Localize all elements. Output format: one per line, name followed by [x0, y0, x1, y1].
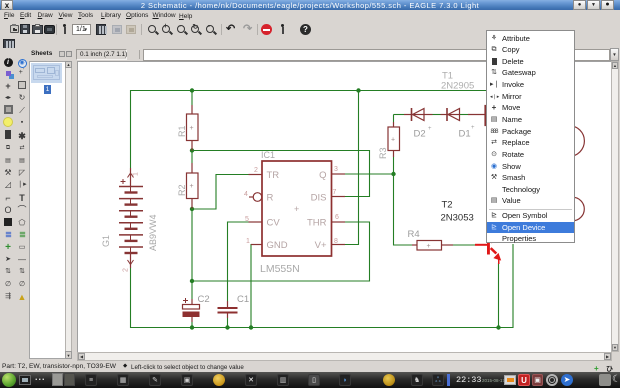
svg-text:C2: C2	[198, 294, 210, 305]
svg-text:8: 8	[334, 238, 338, 245]
svg-text:R1: R1	[177, 125, 187, 137]
svg-text:5: 5	[245, 216, 249, 223]
svg-text:1: 1	[133, 172, 140, 176]
svg-text:D1: D1	[459, 129, 471, 140]
svg-text:2N2905: 2N2905	[441, 81, 474, 92]
svg-text:2: 2	[254, 167, 258, 174]
svg-text:IC1: IC1	[261, 150, 275, 160]
svg-text:R: R	[267, 193, 274, 204]
svg-text:2: 2	[123, 268, 130, 272]
svg-text:R2: R2	[177, 184, 187, 196]
svg-text:D2: D2	[414, 129, 426, 140]
svg-text:T2: T2	[442, 200, 453, 211]
svg-text:7: 7	[333, 189, 337, 196]
svg-text:+: +	[190, 125, 194, 132]
svg-text:2N3053: 2N3053	[441, 213, 474, 224]
svg-text:4: 4	[244, 191, 248, 198]
svg-text:1: 1	[246, 238, 250, 245]
svg-text:THR: THR	[307, 218, 327, 229]
svg-text:AB9VW4: AB9VW4	[148, 214, 158, 251]
svg-text:C1: C1	[237, 294, 249, 305]
svg-text:Q: Q	[319, 170, 326, 181]
svg-text:GND: GND	[267, 240, 288, 251]
svg-text:V+: V+	[315, 240, 327, 251]
svg-text:+: +	[428, 126, 432, 132]
svg-text:TR: TR	[267, 170, 280, 181]
svg-text:DIS: DIS	[311, 193, 327, 204]
svg-text:3: 3	[334, 166, 338, 173]
svg-text:G1: G1	[101, 235, 111, 247]
svg-text:+: +	[294, 204, 299, 214]
svg-text:6: 6	[335, 214, 339, 221]
svg-text:+: +	[190, 183, 194, 190]
svg-text:CV: CV	[267, 218, 281, 229]
svg-text:R3: R3	[378, 147, 388, 159]
svg-text:LM555N: LM555N	[260, 263, 300, 275]
svg-text:+: +	[427, 243, 431, 250]
svg-text:+: +	[471, 125, 475, 131]
svg-text:+: +	[391, 137, 395, 144]
svg-text:R4: R4	[408, 229, 420, 240]
